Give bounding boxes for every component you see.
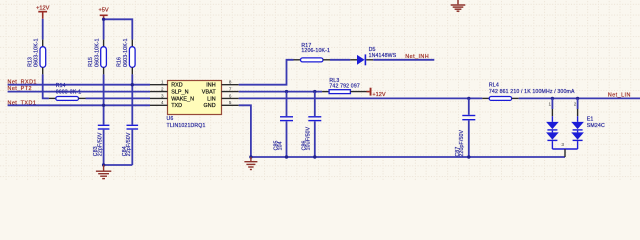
svg-text:2: 2	[161, 87, 164, 92]
svg-text:22pF/50V: 22pF/50V	[98, 132, 104, 156]
TVS E1 SM24C	[546, 98, 605, 157]
svg-text:0603-3K-1: 0603-3K-1	[56, 89, 82, 95]
power +12V	[36, 6, 49, 19]
pin 3 WAKE_N	[150, 93, 194, 102]
wire +5V branch	[104, 19, 133, 46]
capacitor C83	[93, 125, 109, 157]
svg-text:+12V: +12V	[36, 6, 49, 12]
svg-text:7: 7	[229, 87, 232, 92]
svg-text:104: 104	[278, 141, 284, 150]
ground under C83	[96, 165, 111, 179]
wire INH pin8 to R17	[239, 60, 301, 85]
wire R14 to pin 3	[79, 97, 151, 99]
svg-text:3: 3	[561, 142, 564, 147]
diode D5 1N4148WS	[357, 47, 397, 65]
pin 1	[551, 98, 553, 109]
pin 1 RXD	[150, 80, 183, 89]
svg-text:SM24C: SM24C	[587, 123, 605, 129]
bottom rail of E1	[552, 148, 577, 150]
svg-text:+5V: +5V	[99, 7, 109, 13]
svg-text:2: 2	[574, 102, 577, 107]
svg-text:R14: R14	[56, 83, 66, 89]
resistor R17	[301, 43, 331, 62]
wire R13 bottom to R14	[43, 67, 56, 98]
pin 7 VBAT	[202, 87, 239, 96]
svg-text:1: 1	[548, 102, 551, 107]
wire RL4 to Net_LIN	[512, 97, 640, 99]
svg-text:R15: R15	[88, 57, 94, 67]
ferrite bead RL4	[489, 83, 575, 101]
svg-text:R13: R13	[27, 57, 33, 67]
svg-text:5: 5	[229, 100, 232, 105]
svg-text:Net_INH: Net_INH	[405, 54, 429, 60]
svg-text:GND: GND	[204, 103, 216, 109]
resistor R14	[56, 83, 82, 100]
junction C85/VBAT	[285, 90, 288, 93]
svg-text:0603-10K-1: 0603-10K-1	[34, 38, 40, 67]
wire Net_RXD1 to pin 1	[8, 84, 150, 86]
pin 6 LIN	[207, 93, 239, 102]
wire C84 bottom	[131, 130, 133, 165]
svg-text:U6: U6	[167, 116, 174, 122]
resistor R15	[88, 38, 106, 67]
svg-text:3: 3	[161, 93, 164, 98]
junction ground rail start	[249, 155, 252, 158]
svg-text:TLIN1021DRQ1: TLIN1021DRQ1	[167, 123, 206, 129]
pin 8 INH	[206, 80, 238, 89]
pin 2	[577, 98, 579, 109]
junction C83 ground	[102, 163, 105, 166]
resistor R13	[27, 38, 45, 67]
wire R16 bottom to C84	[131, 67, 133, 124]
junction C86 ground	[313, 155, 316, 158]
wire Net_TXD1 to pin 4	[8, 104, 150, 106]
IC U6 TLIN1021DRQ1	[167, 81, 222, 129]
junction R16/RXD1	[131, 83, 134, 86]
junction E1 pin2/LIN	[576, 97, 579, 100]
wire +12V to R13	[42, 19, 44, 47]
svg-text:0603-10K-1: 0603-10K-1	[123, 38, 129, 67]
pin 2 SLP_N	[150, 87, 189, 96]
svg-text:742 792 097: 742 792 097	[329, 83, 360, 89]
svg-text:Net_LIN: Net_LIN	[608, 92, 631, 98]
wire ground rail	[251, 156, 565, 158]
svg-text:INH: INH	[206, 83, 215, 89]
svg-text:220pF/50V: 220pF/50V	[459, 129, 465, 156]
junction +5V branch	[102, 18, 105, 21]
pin 4 TXD	[150, 100, 182, 109]
junction R15/TXD1	[102, 104, 105, 107]
wire C87 vertical	[468, 98, 470, 157]
svg-text:SLP_N: SLP_N	[171, 90, 188, 96]
junction C85 ground	[285, 155, 288, 158]
svg-text:4: 4	[161, 100, 164, 105]
svg-text:+12V: +12V	[372, 92, 385, 98]
wire VBAT pin7 to RL3	[239, 91, 329, 93]
wire C83-C84 ground rail	[104, 164, 133, 166]
ferrite bead RL3	[329, 78, 360, 94]
svg-text:VBAT: VBAT	[202, 90, 217, 96]
capacitor C85	[273, 116, 293, 150]
pin 3	[564, 149, 566, 157]
wire D5 to Net_INH	[366, 59, 434, 61]
svg-text:RXD: RXD	[171, 83, 183, 89]
wire C83 bottom	[103, 130, 105, 165]
svg-text:WAKE_N: WAKE_N	[171, 96, 194, 102]
svg-text:RL4: RL4	[489, 83, 499, 89]
capacitor C86	[302, 116, 322, 150]
wire C85 vertical	[286, 92, 288, 157]
svg-text:742 861 210 / 1K 100MHz / 300m: 742 861 210 / 1K 100MHz / 300mA	[489, 89, 575, 95]
pin 5 GND	[204, 100, 239, 109]
svg-text:10uF/50V: 10uF/50V	[306, 126, 312, 150]
wire Net_PT2 to pin 2	[8, 91, 150, 93]
resistor R16	[117, 38, 136, 67]
svg-text:1: 1	[161, 80, 164, 85]
ground top	[451, 0, 466, 11]
svg-text:22pF/50V: 22pF/50V	[126, 132, 132, 156]
junction C87/LIN	[467, 97, 470, 100]
ground main rail	[244, 157, 257, 170]
wire LIN pin6 to RL4	[239, 97, 490, 99]
wire C86 vertical	[314, 92, 316, 157]
power +12V right	[370, 88, 386, 98]
svg-text:LIN: LIN	[207, 96, 216, 102]
svg-text:R16: R16	[117, 57, 123, 67]
junction C87 ground	[467, 155, 470, 158]
svg-text:E1: E1	[587, 117, 594, 123]
svg-text:1N4148WS: 1N4148WS	[369, 53, 397, 59]
wire RL3 to +12V	[350, 91, 369, 93]
junction E1 pin1/LIN	[551, 97, 554, 100]
wire GND pin5 down	[239, 105, 251, 157]
junction C86/VBAT	[313, 90, 316, 93]
capacitor C87	[455, 115, 476, 157]
power +5V	[99, 7, 109, 19]
wire R15 bottom to C83	[103, 67, 105, 124]
capacitor C84	[122, 125, 138, 157]
svg-text:TXD: TXD	[171, 103, 182, 109]
svg-text:0603-10K-1: 0603-10K-1	[94, 38, 100, 67]
svg-text:1206-10K-1: 1206-10K-1	[301, 48, 330, 54]
svg-text:8: 8	[229, 80, 232, 85]
wire R17 to D5	[323, 59, 357, 61]
svg-text:6: 6	[229, 93, 232, 98]
